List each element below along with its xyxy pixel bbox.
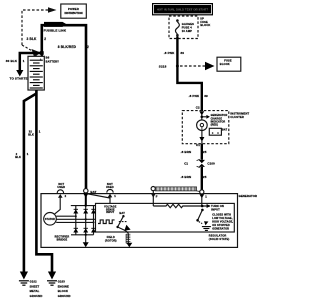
svg-text:C1: C1 <box>184 161 188 165</box>
arrow turn on input <box>207 204 211 208</box>
power distribution box <box>61 4 87 18</box>
wire voltage sense <box>109 197 111 204</box>
terminal BAT <box>83 189 96 198</box>
voltmeter box <box>209 128 227 135</box>
wire ground branch left <box>24 94 37 273</box>
svg-text:I/P: I/P <box>200 16 204 20</box>
svg-text:C100: C100 <box>207 161 215 165</box>
stator winding band <box>151 187 200 192</box>
svg-text:HOT IN RUN, BULB TEST OR START: HOT IN RUN, BULB TEST OR START <box>157 7 209 11</box>
terminal L <box>199 190 207 199</box>
svg-text:BLOCK: BLOCK <box>200 23 210 27</box>
svg-text:BATTERY: BATTERY <box>46 60 60 64</box>
svg-text:25: 25 <box>203 175 207 179</box>
diodes top row <box>73 209 96 213</box>
svg-text:FUSIBLE LINK: FUSIBLE LINK <box>44 28 67 32</box>
arrow into splice S junction <box>32 49 41 58</box>
svg-text:G103: G103 <box>58 280 66 284</box>
svg-text:FUSE: FUSE <box>200 20 208 24</box>
wire .8 brn lower (thick) <box>201 167 203 190</box>
arrow to power distribution box <box>48 7 57 13</box>
svg-text:BAT: BAT <box>119 211 125 215</box>
svg-text:1: 1 <box>39 129 41 133</box>
resistor in L circuit <box>153 204 210 207</box>
svg-text:C2: C2 <box>196 106 200 110</box>
indicator bulb <box>197 120 208 131</box>
svg-text:+: + <box>40 58 42 62</box>
svg-text:CLUSTER: CLUSTER <box>230 115 244 119</box>
svg-text:G102: G102 <box>30 280 38 284</box>
fusible link <box>44 22 67 33</box>
svg-text:.8 BRN: .8 BRN <box>181 175 192 179</box>
svg-text:BLK: BLK <box>28 133 34 137</box>
svg-text:STATOR: STATOR <box>45 218 55 221</box>
svg-text:ENGINE: ENGINE <box>58 284 69 288</box>
fuse GAUGES FUSE 4 <box>175 19 194 36</box>
svg-text:INSTRUMENT: INSTRUMENT <box>230 112 249 116</box>
battery B6 <box>28 53 59 90</box>
regulator field switch <box>116 211 130 231</box>
svg-text:USED: USED <box>57 185 65 189</box>
svg-text:GAUGES: GAUGES <box>182 22 194 26</box>
svg-text:INPUT: INPUT <box>106 211 114 214</box>
ground G102 <box>19 272 43 299</box>
wire battery feed (thick) <box>42 25 86 189</box>
node junction <box>201 116 204 119</box>
field rotor coil <box>105 231 130 244</box>
svg-text:8 BLK/RED: 8 BLK/RED <box>58 45 77 49</box>
svg-text:B6: B6 <box>46 56 50 60</box>
wire BAT terminal to rectifier rail <box>85 196 87 206</box>
wire bridge to case ground <box>85 235 87 243</box>
svg-text:(RED): (RED) <box>211 124 219 127</box>
svg-text:(ROTOR): (ROTOR) <box>105 239 117 242</box>
regulator box <box>96 203 235 232</box>
svg-text:GROUND: GROUND <box>30 294 43 298</box>
svg-text:.8 PNK: .8 PNK <box>164 51 175 55</box>
wire bulb to connector with arrow <box>201 131 203 138</box>
node L junction <box>201 205 204 208</box>
svg-text:-: - <box>40 85 41 89</box>
wire dashed pwm control <box>119 221 128 223</box>
wire pnk from fuse (thick) <box>177 37 201 112</box>
svg-text:GENERATOR: GENERATOR <box>212 227 229 230</box>
wire stator to terminal P <box>54 198 60 215</box>
svg-text:39: 39 <box>180 51 184 55</box>
svg-text:2: 2 <box>44 37 46 41</box>
banner hot in run <box>152 3 213 15</box>
splice junction node <box>40 51 44 55</box>
svg-text:FUSE 4: FUSE 4 <box>182 25 192 29</box>
terminal F <box>152 191 154 206</box>
wire bat junction to sense <box>87 194 110 198</box>
I/P fuse block dashed box <box>169 16 198 39</box>
svg-text:(SOLID STATE): (SOLID STATE) <box>209 237 230 241</box>
svg-text:10 AMP: 10 AMP <box>182 29 192 33</box>
svg-text:1: 1 <box>23 59 25 63</box>
splice S218 <box>176 65 179 68</box>
svg-text:1: 1 <box>27 152 29 156</box>
svg-text:INPUT: INPUT <box>211 207 220 211</box>
svg-text:GENERATOR: GENERATOR <box>239 194 257 198</box>
svg-text:BRIDGE: BRIDGE <box>57 239 68 242</box>
terminal S not used <box>106 182 116 198</box>
diodes bottom row <box>73 228 96 232</box>
wire L terminal down <box>201 197 203 207</box>
wire .8 brn upper (thick) <box>201 144 203 160</box>
svg-text:BAT: BAT <box>222 129 228 132</box>
svg-text:DISTRIBUTION: DISTRIBUTION <box>64 11 82 15</box>
svg-text:BLOCK: BLOCK <box>220 62 230 66</box>
ground G103 <box>47 272 71 299</box>
svg-text:BLK: BLK <box>15 155 21 159</box>
wire into cluster with arrow <box>199 111 204 115</box>
rectifier bridge <box>55 204 96 241</box>
svg-text:30 BLK: 30 BLK <box>6 59 18 63</box>
svg-text:2: 2 <box>65 194 67 198</box>
svg-text:1: 1 <box>205 195 207 199</box>
fuse block box <box>217 57 241 71</box>
svg-text:F: F <box>156 195 158 199</box>
arrow to starter <box>16 70 23 77</box>
generator box <box>41 194 238 248</box>
wire to starter <box>20 53 42 71</box>
svg-text:FUSE: FUSE <box>224 58 232 62</box>
svg-text:25: 25 <box>203 150 207 154</box>
pwm waveform <box>98 220 115 224</box>
svg-text:1: 1 <box>114 194 116 198</box>
svg-text:USED: USED <box>106 185 114 189</box>
svg-text:BLOCK: BLOCK <box>58 289 68 293</box>
svg-text:.8 PNK: .8 PNK <box>189 94 200 98</box>
wire dashed to fuse block <box>180 65 205 67</box>
arrow to indicator label <box>203 116 206 118</box>
wire battery negative (thick) <box>36 90 52 272</box>
svg-text:.8 BRN: .8 BRN <box>181 150 192 154</box>
svg-text:2: 2 <box>87 45 89 49</box>
svg-text:BAT: BAT <box>90 190 96 194</box>
wire stator phases <box>56 216 95 222</box>
svg-text:SHEET: SHEET <box>30 284 40 288</box>
svg-text:C1: C1 <box>196 143 200 147</box>
svg-text:S218: S218 <box>159 65 167 69</box>
stator <box>44 213 57 226</box>
ground regulator internal <box>202 227 211 231</box>
svg-text:METAL: METAL <box>30 289 40 293</box>
svg-text:GROUND: GROUND <box>58 294 71 298</box>
turn on switch <box>196 209 208 226</box>
arrow field to case ground <box>126 243 132 248</box>
svg-text:3 BLK: 3 BLK <box>27 37 38 41</box>
connector C100 inline <box>184 159 215 167</box>
wire dashed to power distribution <box>22 10 48 51</box>
svg-text:POWER: POWER <box>68 7 79 11</box>
instrument cluster dashed box <box>182 111 229 144</box>
arrow bridge to case ground <box>83 242 89 247</box>
terminal P not used <box>57 182 66 198</box>
svg-text:39: 39 <box>204 94 208 98</box>
